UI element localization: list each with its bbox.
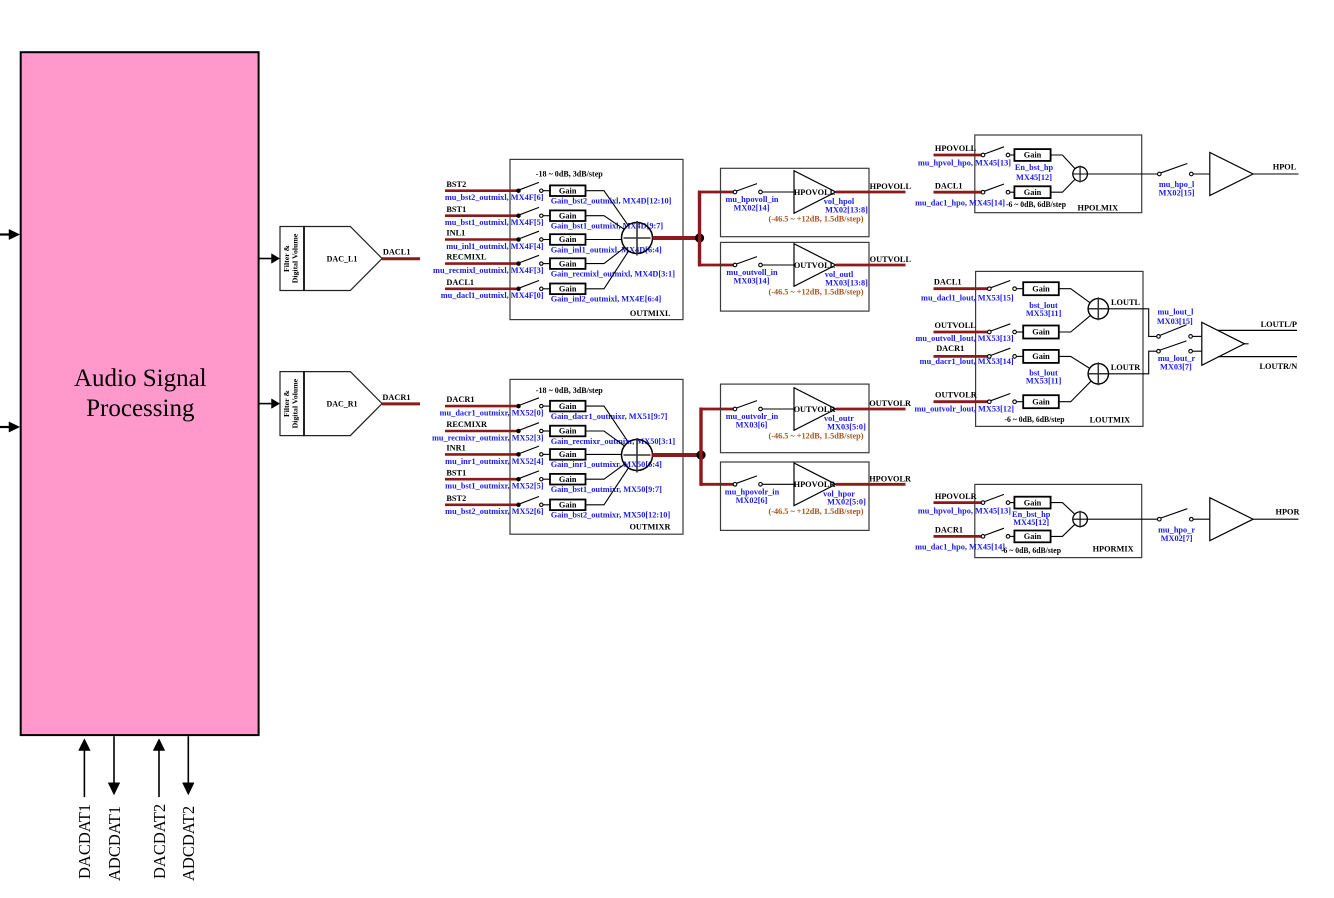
- svg-text:HPOL: HPOL: [1273, 162, 1297, 171]
- wire gain output to summer: [1051, 155, 1076, 169]
- OUTVOLR box: [721, 384, 870, 453]
- switch mu_bst2_outmixr: [517, 503, 520, 506]
- svg-text:MX03[5:0]: MX03[5:0]: [827, 422, 866, 431]
- svg-text:HPOVOLR: HPOVOLR: [935, 492, 978, 501]
- svg-text:Processing: Processing: [86, 395, 195, 422]
- wire DACL1 gain to LOUTL summer: [1059, 289, 1090, 303]
- wire arrow into DAC_L1: [259, 258, 273, 260]
- svg-text:MX45[12]: MX45[12]: [1016, 173, 1052, 182]
- wire branch vertical L: [698, 191, 701, 267]
- svg-text:MX03[13:8]: MX03[13:8]: [825, 278, 868, 287]
- gain block Gain_inl2_outmixl: [550, 284, 586, 295]
- wire to OUTVOLL input: [698, 264, 735, 267]
- svg-text:MX02[5:0]: MX02[5:0]: [827, 498, 866, 507]
- svg-text:mu_inl1_outmixl, MX4F[4]: mu_inl1_outmixl, MX4F[4]: [446, 242, 543, 251]
- switch mu_outvoll_lout: [988, 330, 992, 334]
- svg-text:OUTMIXR: OUTMIXR: [629, 523, 671, 532]
- svg-text:OUTVOLR: OUTVOLR: [794, 405, 837, 414]
- svg-text:Gain: Gain: [559, 475, 577, 484]
- wire RECMIXL input: [445, 262, 519, 265]
- wire RECMIXR input: [445, 430, 519, 433]
- wire DACDAT2 input arrow: [158, 750, 160, 798]
- svg-text:(-46.5 ~ +12dB, 1.5dB/step): (-46.5 ~ +12dB, 1.5dB/step): [769, 432, 864, 441]
- gain block of HPOVOLL: [1014, 149, 1050, 161]
- svg-text:Audio Signal: Audio Signal: [74, 365, 207, 392]
- svg-text:DACL1: DACL1: [934, 278, 962, 287]
- wire BST2 input: [445, 503, 519, 506]
- HPOVOLR box: [721, 462, 870, 530]
- wire HPOVOLL output: [836, 191, 906, 194]
- wire gain output to summer: [1051, 524, 1075, 536]
- wire gain output to summer: [586, 453, 622, 455]
- switch mu_dacr1_outmixr: [517, 404, 520, 407]
- svg-text:mu_inr1_outmixr, MX52[4]: mu_inr1_outmixr, MX52[4]: [445, 457, 544, 466]
- gain block Gain_recmixl_outmixl: [550, 258, 586, 269]
- gain block of DACL1: [1023, 282, 1059, 295]
- svg-text:mu_outvoll_lout, MX53[13]: mu_outvoll_lout, MX53[13]: [916, 334, 1014, 343]
- svg-text:DACR1: DACR1: [935, 526, 963, 535]
- svg-text:OUTVOLL: OUTVOLL: [935, 321, 977, 330]
- svg-text:Filter &: Filter &: [282, 390, 291, 417]
- wire branch vertical R: [699, 408, 702, 486]
- wire gain output to summer: [586, 468, 629, 505]
- switch mu_hpovoll_in: [733, 190, 737, 194]
- svg-text:(-46.5 ~ +12dB, 1.5dB/step): (-46.5 ~ +12dB, 1.5dB/step): [769, 507, 864, 516]
- svg-text:Gain: Gain: [1024, 498, 1042, 507]
- wire OUTVOLL gain to LOUTL summer: [1059, 315, 1091, 332]
- gain block of HPOVOLR: [1014, 497, 1050, 509]
- svg-text:MX03[15]: MX03[15]: [1157, 317, 1193, 326]
- svg-text:mu_hpvol_hpo, MX45[13]: mu_hpvol_hpo, MX45[13]: [918, 506, 1011, 515]
- amplifier OUTVOLR: [794, 388, 836, 431]
- wire gain output to summer: [586, 431, 625, 446]
- svg-text:mu_dacr1_lout, MX53[14]: mu_dacr1_lout, MX53[14]: [920, 357, 1014, 366]
- wire INL1 input: [445, 238, 519, 241]
- OUTMIXL box: [510, 159, 683, 319]
- wire DACR1 input: [934, 535, 984, 538]
- wire LOUTL/P output: [1218, 329, 1297, 331]
- svg-text:Gain: Gain: [1024, 151, 1042, 160]
- wire ADCDAT1 output arrow: [113, 736, 115, 783]
- DAC_L1 filter block: [280, 227, 304, 291]
- svg-text:mu_hpvol_hpo, MX45[13]: mu_hpvol_hpo, MX45[13]: [918, 159, 1011, 168]
- svg-text:-6 ~ 0dB, 6dB/step: -6 ~ 0dB, 6dB/step: [1001, 546, 1061, 555]
- svg-text:HPOVOLL: HPOVOLL: [794, 188, 836, 197]
- svg-text:HPOVOLL: HPOVOLL: [870, 182, 912, 191]
- svg-text:INR1: INR1: [446, 444, 465, 453]
- wire gain output to summer: [586, 191, 628, 226]
- LOUTMIX box: [976, 271, 1143, 426]
- gain block of DACR1: [1023, 350, 1059, 363]
- gain block Gain_dacr1_outmixr: [550, 401, 586, 412]
- svg-text:mu_dac1_hpo, MX45[14]: mu_dac1_hpo, MX45[14]: [915, 543, 1005, 552]
- svg-text:mu_bst1_outmixl, MX4F[5]: mu_bst1_outmixl, MX4F[5]: [445, 218, 544, 227]
- svg-text:HPOVOLR: HPOVOLR: [794, 480, 837, 489]
- svg-text:Gain: Gain: [559, 285, 577, 294]
- svg-text:DACL1: DACL1: [446, 278, 474, 287]
- wire OUTMIXL summer output: [653, 236, 702, 240]
- wire BST1 input: [445, 478, 519, 481]
- svg-text:OUTVOLR: OUTVOLR: [869, 399, 912, 408]
- svg-text:HPORMIX: HPORMIX: [1093, 544, 1134, 553]
- svg-text:ADCDAT1: ADCDAT1: [105, 806, 124, 881]
- wire to OUTVOLR input: [700, 408, 736, 411]
- summer of OUTMIXR: [622, 440, 653, 471]
- svg-text:Gain: Gain: [559, 186, 577, 195]
- wire LOUTL summer to switch: [1109, 309, 1158, 337]
- svg-text:Gain: Gain: [559, 211, 577, 220]
- summer of OUTMIXL: [622, 223, 653, 254]
- svg-text:mu_dacl1_outmixl, MX4F[0]: mu_dacl1_outmixl, MX4F[0]: [441, 291, 544, 300]
- svg-text:HPOVOLR: HPOVOLR: [869, 475, 912, 484]
- svg-text:mu_recmixl_outmixl, MX4F[3]: mu_recmixl_outmixl, MX4F[3]: [433, 266, 544, 275]
- svg-text:MX02[7]: MX02[7]: [1161, 534, 1193, 543]
- svg-text:OUTMIXL: OUTMIXL: [630, 309, 671, 318]
- summer of HPOLMIX: [1073, 167, 1088, 182]
- wire OUTVOLL output: [836, 264, 906, 267]
- switch mu_hpo_l: [1158, 172, 1162, 176]
- switch mu_dacl1_lout: [988, 287, 992, 291]
- amplifier HPOR driver: [1210, 498, 1253, 541]
- svg-text:HPOLMIX: HPOLMIX: [1078, 203, 1119, 212]
- gain block of OUTVOLR: [1023, 395, 1059, 408]
- svg-text:Gain: Gain: [559, 235, 577, 244]
- svg-text:MX02[13:8]: MX02[13:8]: [825, 205, 868, 214]
- svg-text:DACR1: DACR1: [446, 395, 474, 404]
- svg-text:mu_recmixr_outmixr, MX52[3]: mu_recmixr_outmixr, MX52[3]: [432, 433, 544, 442]
- svg-text:HPOVOLL: HPOVOLL: [935, 144, 977, 153]
- svg-text:LOUTMIX: LOUTMIX: [1090, 415, 1131, 424]
- svg-text:HPOR: HPOR: [1276, 508, 1301, 517]
- DAC_L1 converter block: [304, 227, 382, 291]
- amplifier HPOVOLL: [794, 171, 836, 214]
- wire summer output of HPORMIX: [1073, 518, 1160, 520]
- wire OUTVOLR output: [836, 408, 906, 411]
- switch mu_lout_r: [1157, 349, 1161, 353]
- svg-text:LOUTL/P: LOUTL/P: [1261, 320, 1297, 329]
- svg-text:mu_lout_l: mu_lout_l: [1158, 307, 1195, 316]
- switch mu_dacr1_lout: [988, 355, 992, 359]
- switch mu_outvolr_lout: [988, 400, 992, 404]
- svg-text:Gain: Gain: [559, 450, 577, 459]
- svg-text:OUTVOLL: OUTVOLL: [794, 261, 836, 270]
- wire HPOVOLR input: [934, 501, 984, 504]
- svg-text:Gain_recmixl_outmixl, MX4D[3:1: Gain_recmixl_outmixl, MX4D[3:1]: [551, 269, 676, 278]
- gain block Gain_bst1_outmixl: [550, 210, 586, 221]
- wire DACL1 input: [934, 191, 984, 194]
- svg-text:Gain: Gain: [559, 402, 577, 411]
- switch mu_inr1_outmixr: [517, 453, 520, 456]
- svg-text:MX02[15]: MX02[15]: [1159, 189, 1195, 198]
- wire DACR1 input: [445, 405, 519, 408]
- wire HPOVOLL input: [934, 154, 984, 157]
- gain block Gain_bst1_outmixr: [550, 474, 586, 485]
- svg-text:DACDAT1: DACDAT1: [75, 804, 94, 879]
- amplifier OUTVOLL: [794, 244, 836, 287]
- wire DACL1 input: [445, 287, 519, 290]
- wire input arrow 1 into ASP: [0, 233, 10, 235]
- svg-text:mu_dacl1_lout, MX53[15]: mu_dacl1_lout, MX53[15]: [921, 293, 1014, 302]
- svg-text:OUTVOLL: OUTVOLL: [870, 255, 912, 264]
- svg-text:DACR1: DACR1: [936, 344, 964, 353]
- svg-text:MX02[14]: MX02[14]: [734, 204, 770, 213]
- wire HPOVOLR output: [836, 483, 906, 486]
- switch mu_outvoll_in: [733, 263, 737, 267]
- svg-text:-6 ~ 0dB, 6dB/step: -6 ~ 0dB, 6dB/step: [1005, 415, 1065, 424]
- svg-text:mu_bst2_outmixr, MX52[6]: mu_bst2_outmixr, MX52[6]: [445, 507, 544, 516]
- switch mu_bst1_outmixl: [517, 214, 520, 217]
- junction node OUTMIXR output: [697, 451, 706, 460]
- svg-text:mu_outvolr_lout, MX53[12]: mu_outvolr_lout, MX53[12]: [914, 405, 1014, 414]
- switch mu_recmixl_outmixl: [517, 262, 520, 265]
- svg-text:MX03[7]: MX03[7]: [1160, 363, 1192, 372]
- wire INR1 input: [445, 453, 519, 456]
- amplifier HPOL driver: [1210, 153, 1253, 196]
- wire to HPOVOLR input: [700, 483, 736, 486]
- svg-text:Gain: Gain: [1032, 352, 1050, 361]
- wire LOUTR/N output: [1218, 356, 1297, 358]
- svg-text:mu_dac1_hpo, MX45[14]: mu_dac1_hpo, MX45[14]: [915, 198, 1005, 207]
- svg-text:MX53[11]: MX53[11]: [1026, 377, 1062, 386]
- svg-text:Gain: Gain: [1032, 284, 1050, 293]
- wire LOUTR summer to switch: [1109, 351, 1158, 374]
- switch mu_hpvol_hpo: [981, 501, 985, 505]
- svg-text:-18 ~ 0dB, 3dB/step: -18 ~ 0dB, 3dB/step: [536, 170, 603, 179]
- svg-text:MX53[11]: MX53[11]: [1026, 309, 1062, 318]
- gain block of DACL1: [1014, 186, 1050, 198]
- svg-text:Filter &: Filter &: [282, 245, 291, 272]
- gain block of DACR1: [1014, 531, 1050, 543]
- svg-text:Gain_inl2_outmixl, MX4E[6:4]: Gain_inl2_outmixl, MX4E[6:4]: [551, 295, 662, 304]
- svg-text:Gain_bst2_outmixr, MX50[12:10]: Gain_bst2_outmixr, MX50[12:10]: [551, 511, 671, 520]
- wire BST2 input: [445, 189, 519, 192]
- amplifier HPOVOLR: [794, 463, 836, 506]
- wire DACR1 output of DAC_R1: [382, 402, 420, 405]
- svg-text:mu_dacr1_outmixr, MX52[0]: mu_dacr1_outmixr, MX52[0]: [440, 409, 544, 418]
- wire DACR1 input: [934, 355, 990, 358]
- gain block of OUTVOLL: [1023, 326, 1059, 339]
- switch mu_dac1_hpo: [981, 535, 985, 539]
- svg-text:Gain: Gain: [559, 501, 577, 510]
- svg-text:Digital Volume: Digital Volume: [291, 378, 300, 428]
- wire DACL1 input: [934, 287, 990, 290]
- switch mu_bst1_outmixr: [517, 478, 520, 481]
- svg-text:RECMIXR: RECMIXR: [446, 420, 488, 429]
- wire gain output to summer: [586, 248, 625, 264]
- switch mu_hpo_r: [1158, 517, 1162, 521]
- wire gain output to summer: [586, 251, 629, 289]
- wire gain output to summer: [586, 239, 622, 241]
- wire BST1 input: [445, 214, 519, 217]
- wire OUTVOLR input: [934, 400, 990, 403]
- svg-text:RECMIXL: RECMIXL: [446, 253, 487, 262]
- HPORMIX box: [975, 484, 1142, 557]
- wire HPOL output: [1253, 173, 1298, 175]
- svg-text:LOUTR: LOUTR: [1111, 363, 1142, 372]
- junction node OUTMIXL output: [695, 234, 704, 243]
- switch mu_lout_l: [1157, 335, 1161, 339]
- svg-text:MX02[6]: MX02[6]: [736, 496, 768, 505]
- svg-text:Gain: Gain: [1032, 397, 1050, 406]
- OUTVOLL box: [721, 242, 870, 311]
- DAC_R1 converter block: [304, 372, 382, 436]
- svg-text:-6 ~ 0dB, 6dB/step: -6 ~ 0dB, 6dB/step: [1006, 200, 1066, 209]
- summer of HPORMIX: [1073, 512, 1088, 527]
- switch mu_dacl1_outmixl: [517, 287, 520, 290]
- svg-text:BST2: BST2: [446, 494, 466, 503]
- wire DACL1 output of DAC_L1: [382, 257, 420, 260]
- svg-text:En_bst_hp: En_bst_hp: [1015, 163, 1054, 172]
- switch mu_hpvol_hpo: [981, 153, 985, 157]
- svg-text:mu_bst1_outmixr, MX52[5]: mu_bst1_outmixr, MX52[5]: [445, 482, 544, 491]
- switch mu_bst2_outmixl: [517, 189, 520, 192]
- svg-text:DACDAT2: DACDAT2: [150, 804, 169, 879]
- wire OUTVOLL input: [934, 331, 990, 334]
- wire input arrow 2 into ASP: [0, 426, 10, 428]
- Audio Signal Processing block: [21, 52, 259, 735]
- amplifier LOUT differential driver: [1202, 322, 1245, 365]
- gain block Gain_inl1_outmixl: [550, 234, 586, 245]
- svg-text:Gain: Gain: [559, 259, 577, 268]
- svg-text:Gain: Gain: [1024, 532, 1042, 541]
- summer LOUTL: [1088, 299, 1108, 319]
- svg-text:Gain: Gain: [559, 427, 577, 436]
- svg-text:-18 ~ 0dB, 3dB/step: -18 ~ 0dB, 3dB/step: [536, 386, 603, 395]
- wire to HPOVOLL input: [698, 191, 735, 194]
- svg-text:OUTVOLR: OUTVOLR: [935, 390, 978, 399]
- svg-text:INL1: INL1: [446, 229, 465, 238]
- svg-text:BST1: BST1: [446, 205, 466, 214]
- wire arrow into DAC_R1: [259, 403, 273, 405]
- wire ADCDAT2 output arrow: [187, 736, 189, 783]
- gain block Gain_recmixr_outmixr: [550, 426, 586, 437]
- svg-text:BST2: BST2: [446, 180, 466, 189]
- switch mu_inl1_outmixl: [517, 238, 520, 241]
- wire OUTVOLR gain to LOUTR summer: [1059, 381, 1091, 402]
- switch mu_dac1_hpo: [981, 190, 985, 194]
- DAC_R1 filter block: [280, 372, 304, 436]
- svg-text:mu_bst2_outmixl, MX4F[6]: mu_bst2_outmixl, MX4F[6]: [445, 193, 544, 202]
- svg-text:ADCDAT2: ADCDAT2: [179, 806, 198, 881]
- wire DACR1 gain to LOUTR summer: [1059, 356, 1090, 368]
- gain block Gain_bst2_outmixr: [550, 500, 586, 511]
- wire OUTMIXR summer output: [652, 453, 703, 457]
- svg-text:DACL1: DACL1: [383, 248, 411, 257]
- svg-text:Gain_bst1_outmixr, MX50[9:7]: Gain_bst1_outmixr, MX50[9:7]: [551, 485, 662, 494]
- svg-text:Digital Volume: Digital Volume: [291, 233, 300, 283]
- svg-text:LOUTL: LOUTL: [1111, 298, 1141, 307]
- svg-text:Gain_inl1_outmixl, MX4D[6:4]: Gain_inl1_outmixl, MX4D[6:4]: [551, 245, 662, 254]
- svg-text:DAC_R1: DAC_R1: [326, 399, 357, 408]
- svg-text:DAC_L1: DAC_L1: [327, 254, 358, 263]
- svg-text:LOUTR/N: LOUTR/N: [1259, 362, 1297, 371]
- switch mu_outvolr_in: [733, 407, 737, 411]
- wire summer output of HPOLMIX: [1073, 173, 1160, 175]
- svg-text:(-46.5 ~ +12dB, 1.5dB/step): (-46.5 ~ +12dB, 1.5dB/step): [769, 288, 864, 297]
- svg-text:MX03[14]: MX03[14]: [734, 277, 770, 286]
- HPOLMIX box: [975, 135, 1142, 213]
- svg-text:(-46.5 ~ +12dB, 1.5dB/step): (-46.5 ~ +12dB, 1.5dB/step): [769, 215, 864, 224]
- svg-text:DACL1: DACL1: [935, 181, 963, 190]
- switch mu_hpovolr_in: [733, 483, 737, 487]
- svg-text:DACR1: DACR1: [382, 393, 410, 402]
- wire gain output to summer: [586, 406, 629, 442]
- summer LOUTR: [1088, 364, 1108, 384]
- wire gain output to summer: [1051, 503, 1075, 515]
- svg-text:Gain: Gain: [1032, 328, 1050, 337]
- OUTMIXR box: [510, 379, 683, 534]
- gain block Gain_inr1_outmixr: [550, 449, 586, 460]
- svg-text:Gain: Gain: [1024, 188, 1042, 197]
- switch mu_recmixr_outmixr: [517, 429, 520, 432]
- svg-text:BST1: BST1: [446, 468, 466, 477]
- wire DACDAT1 input arrow: [83, 750, 85, 798]
- gain block Gain_bst2_outmixl: [550, 185, 586, 196]
- HPOVOLL box: [721, 168, 870, 236]
- wire gain output to summer: [586, 216, 625, 230]
- svg-text:MX45[12]: MX45[12]: [1013, 518, 1049, 527]
- wire gain output to summer: [1051, 179, 1075, 192]
- svg-text:MX03[6]: MX03[6]: [736, 421, 768, 430]
- wire gain output to summer: [586, 464, 625, 479]
- wire HPOR output: [1253, 518, 1298, 520]
